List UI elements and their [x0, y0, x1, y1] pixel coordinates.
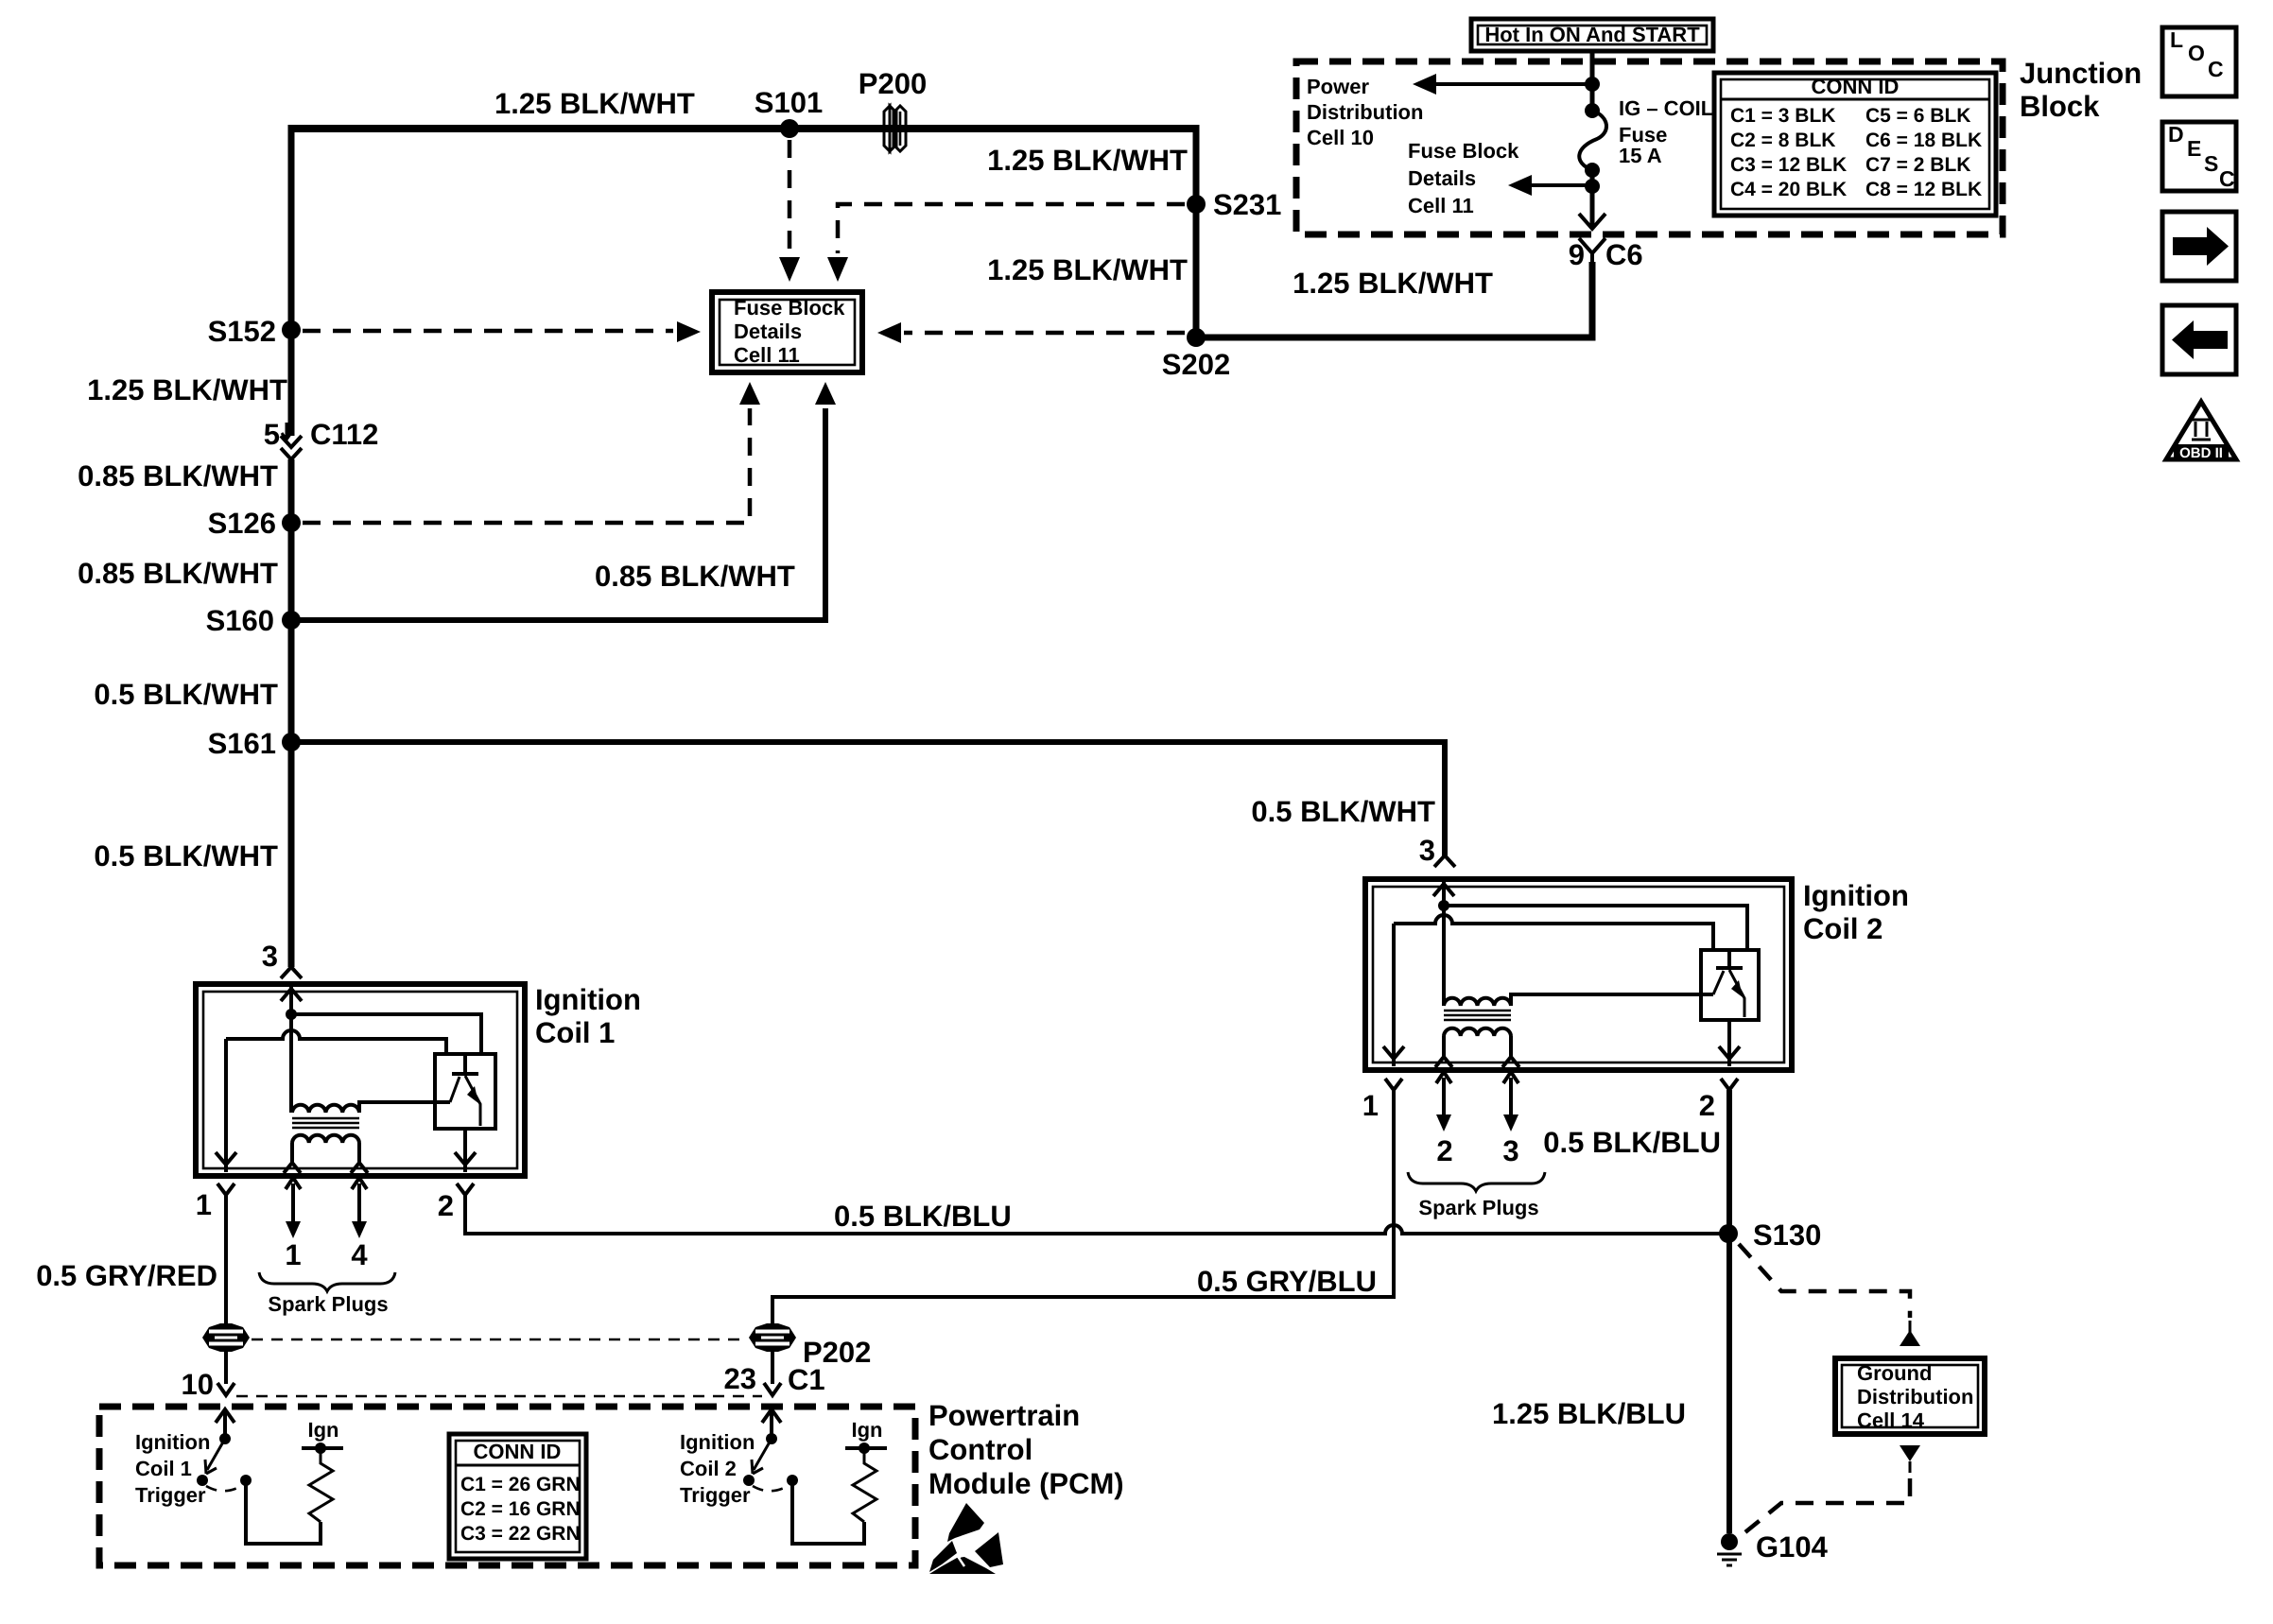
PCM dashed border [99, 1407, 915, 1565]
coil 2 pin 2 connector chevron [1721, 1079, 1738, 1090]
dashed wire S152 to fuse block details [303, 329, 673, 334]
svg-text:0.5 BLK/WHT: 0.5 BLK/WHT [94, 678, 278, 711]
resistor Ign (coil 1) [302, 1418, 343, 1522]
svg-text:Cell 14: Cell 14 [1857, 1408, 1925, 1432]
coil 2 secondary terminal chevrons [1435, 1057, 1519, 1067]
wire switch to resistor (coil 2 trigger) [792, 1480, 864, 1544]
svg-text:Trigger: Trigger [135, 1483, 206, 1507]
splice S161 [282, 733, 301, 752]
coil 1 transformer secondary winding [292, 1135, 359, 1143]
svg-text:0.85 BLK/WHT: 0.85 BLK/WHT [78, 459, 278, 492]
svg-text:Cell 11: Cell 11 [734, 343, 800, 367]
svg-text:C6 = 18 BLK: C6 = 18 BLK [1865, 130, 1982, 151]
svg-text:S160: S160 [206, 604, 274, 637]
svg-text:Ignition: Ignition [535, 983, 641, 1016]
coil 2 pin 1 internal wire with down arrow [1383, 924, 1404, 1066]
svg-text:0.5 BLK/WHT: 0.5 BLK/WHT [1251, 795, 1435, 828]
svg-text:S: S [2204, 151, 2218, 176]
coil 1 spark plug lead 4 (arrow both ends) [352, 1178, 367, 1224]
coil 2 secondary terminal leads [1444, 1036, 1511, 1057]
svg-text:C1 = 26 GRN: C1 = 26 GRN [460, 1474, 581, 1495]
svg-text:0.5 GRY/RED: 0.5 GRY/RED [36, 1259, 217, 1292]
svg-text:G104: G104 [1756, 1530, 1829, 1564]
svg-text:Coil 1: Coil 1 [135, 1457, 192, 1480]
coil 2 spark plug lead 3 (arrow both ends) [1503, 1072, 1518, 1117]
splice S202 [1187, 328, 1206, 347]
svg-text:Ignition: Ignition [680, 1430, 755, 1454]
coil 1 pin 2 internal wire with down arrow [455, 1129, 476, 1172]
ignition coil 1 box [196, 984, 525, 1176]
coil 2 pin 3 internal wire with up arrow [1433, 882, 1454, 906]
dashed wire ground distribution to G104 [1742, 1478, 1910, 1535]
connector P202 pass-through (right) [749, 1323, 871, 1369]
svg-text:CONN ID: CONN ID [474, 1440, 562, 1463]
coil 2 wire pin1 branch with hop over primary lead [1394, 915, 1713, 950]
coil 1 transformer primary winding [292, 1102, 450, 1113]
transistor Q1 symbol [452, 1054, 478, 1074]
svg-text:0.85 BLK/WHT: 0.85 BLK/WHT [595, 560, 795, 593]
svg-text:Ground: Ground [1857, 1361, 1932, 1385]
wire arrow to Power Distribution [1433, 82, 1592, 86]
svg-text:Distribution: Distribution [1857, 1385, 1973, 1408]
junction block dashed border [1296, 61, 2003, 234]
svg-text:Details: Details [1408, 166, 1476, 190]
title box Hot In ON And START [1471, 19, 1713, 51]
wire 0.5 GRY/RED coil1 pin1 down to P202 [224, 1195, 228, 1384]
svg-text:10: 10 [182, 1368, 214, 1401]
splice S101 [780, 119, 799, 138]
svg-text:Coil 1: Coil 1 [535, 1016, 615, 1049]
coil 1 secondary terminal chevrons [284, 1163, 368, 1173]
coil 1 wire dot to transistor collector [291, 1014, 481, 1054]
svg-text:C3 = 22 GRN: C3 = 22 GRN [460, 1523, 581, 1545]
wire switch to resistor (coil 1 trigger) [246, 1480, 321, 1544]
svg-text:C8 = 12 BLK: C8 = 12 BLK [1865, 179, 1982, 200]
wire 1.25 BLK/BLU coil2 pin2 to ground [1726, 1090, 1732, 1533]
svg-text:Spark Plugs: Spark Plugs [268, 1292, 388, 1316]
svg-text:Module (PCM): Module (PCM) [928, 1467, 1124, 1500]
wire 1.25 BLK/WHT top feed [291, 125, 1196, 132]
dashed wire from S231 to fuse block details [838, 204, 1185, 253]
connector C112 pin 5 [264, 418, 379, 459]
wire ignition feed inside junction block [1590, 51, 1595, 227]
arrowhead down into fuse block details (from S231 branch) [827, 257, 848, 282]
svg-text:0.5 BLK/BLU: 0.5 BLK/BLU [834, 1200, 1012, 1233]
arrowhead up to ground distribution box [1909, 1321, 1912, 1333]
svg-text:5: 5 [264, 418, 280, 451]
coil 1 spark plug lead 1 (arrow both ends) [286, 1178, 301, 1224]
transistor Q2 symbol [1716, 950, 1743, 968]
dashed wire from S101 to fuse block details [788, 140, 792, 253]
svg-text:1: 1 [1362, 1089, 1379, 1122]
svg-text:0.5 GRY/BLU: 0.5 GRY/BLU [1197, 1265, 1377, 1298]
svg-text:Cell 11: Cell 11 [1408, 194, 1474, 217]
svg-text:S126: S126 [208, 507, 276, 540]
svg-text:S130: S130 [1753, 1218, 1821, 1252]
svg-text:S152: S152 [208, 315, 276, 348]
coil 2 pin 3 connector Y [1434, 855, 1455, 867]
svg-text:Details: Details [734, 320, 802, 343]
icon right arrow box [2162, 212, 2236, 281]
svg-text:C2 = 8 BLK: C2 = 8 BLK [1730, 130, 1835, 151]
brace spark plugs (coil 1) [259, 1272, 395, 1291]
arrowhead down at junction block exit [1579, 214, 1605, 229]
arrowhead up into fuse block details (dashed) [739, 382, 760, 405]
svg-text:15 A: 15 A [1619, 144, 1662, 167]
svg-text:3: 3 [262, 940, 278, 973]
coil 1 pin 3 connector Y [281, 967, 302, 978]
coil 2 transformer core [1444, 1011, 1511, 1020]
coil 1 wire primary lead (dot to winding) [289, 1014, 293, 1113]
arrowhead down from ground distribution box [1900, 1445, 1920, 1461]
arrowhead left into fuse block details box [877, 322, 901, 343]
wire 0.5 BLK/WHT S161 to coil 2 [291, 742, 1445, 855]
ground G104 [1717, 1530, 1829, 1565]
icon OBD II triangle [2166, 402, 2236, 461]
coil 1 pin 3 internal wire with up arrow [281, 987, 302, 1014]
svg-text:1.25 BLK/WHT: 1.25 BLK/WHT [495, 87, 695, 120]
ignition coil 2 box [1365, 879, 1792, 1070]
svg-text:Hot In ON And START: Hot In ON And START [1484, 23, 1700, 46]
svg-text:Trigger: Trigger [680, 1483, 751, 1507]
ignition coil 1 trigger: switch [197, 1433, 252, 1491]
svg-text:C112: C112 [310, 418, 378, 451]
svg-text:L: L [2170, 27, 2183, 52]
svg-text:Spark Plugs: Spark Plugs [1418, 1196, 1538, 1219]
svg-text:1: 1 [196, 1188, 212, 1221]
svg-text:Control: Control [928, 1433, 1032, 1466]
coil 1 pin 1 connector chevron [217, 1183, 234, 1195]
svg-text:1: 1 [285, 1238, 301, 1271]
svg-text:E: E [2187, 136, 2201, 161]
svg-text:9: 9 [1569, 238, 1585, 271]
svg-text:Distribution: Distribution [1307, 100, 1423, 124]
splice S160 [282, 611, 301, 630]
svg-text:3: 3 [1502, 1134, 1518, 1167]
wire 0.5 BLK/BLU coil1 pin2 to S130 [465, 1195, 1728, 1234]
svg-text:Ign: Ign [852, 1418, 883, 1442]
dashed connector line P202 [252, 1339, 747, 1341]
conn id table (junction block) [1714, 73, 1996, 216]
connector P202 pass-through (left) [202, 1323, 250, 1352]
coil 1 wire pin1 branch with hop over primary lead [226, 1030, 446, 1054]
coil 1 internal node dot [286, 1009, 297, 1020]
svg-text:C3 = 12 BLK: C3 = 12 BLK [1730, 154, 1847, 176]
arrowhead right into fuse block details box [677, 321, 701, 342]
wire 1.25 BLK/WHT right vertical to S231/S202 [1193, 125, 1200, 337]
connector C6 pin 9 [1569, 238, 1643, 271]
coil 1 pin 2 connector chevron [457, 1183, 474, 1195]
resistor Ign (coil 2) [845, 1418, 887, 1522]
thin dashed connector line C1 inside PCM top [236, 1395, 762, 1398]
svg-text:1.25 BLK/WHT: 1.25 BLK/WHT [1293, 267, 1493, 300]
fuse IG-COIL 15A [1579, 96, 1713, 178]
svg-text:2: 2 [438, 1189, 454, 1222]
svg-text:C2 = 16 GRN: C2 = 16 GRN [460, 1498, 581, 1520]
ignition coil 1 trigger: input arrow [216, 1409, 234, 1439]
svg-text:Power: Power [1307, 75, 1369, 98]
svg-text:D: D [2168, 122, 2184, 147]
svg-text:Block: Block [2020, 90, 2100, 123]
splice S231 [1187, 195, 1206, 214]
svg-text:0.5 BLK/WHT: 0.5 BLK/WHT [94, 839, 278, 872]
svg-text:OBD II: OBD II [2179, 445, 2223, 461]
coil 2 spark plug lead 2 (arrow both ends) [1436, 1072, 1451, 1117]
ESD symbol [929, 1503, 1003, 1574]
svg-text:Powertrain: Powertrain [928, 1399, 1080, 1432]
svg-text:Fuse Block: Fuse Block [1408, 139, 1519, 163]
svg-text:C: C [2208, 57, 2224, 81]
node branch dot (fuse block details tap) [1585, 179, 1600, 194]
coil 1 transformer core [292, 1118, 359, 1128]
svg-text:C5 = 6 BLK: C5 = 6 BLK [1865, 105, 1970, 127]
arrowhead down into fuse block details (from S101) [779, 257, 800, 282]
svg-text:S231: S231 [1213, 188, 1281, 221]
brace spark plugs (coil 2) [1408, 1172, 1545, 1191]
coil 1 secondary terminal leads [292, 1143, 359, 1163]
svg-text:2: 2 [1436, 1134, 1452, 1167]
svg-text:C7 = 2 BLK: C7 = 2 BLK [1865, 154, 1970, 176]
coil 2 internal node dot [1438, 900, 1449, 911]
svg-text:Cell 10: Cell 10 [1307, 126, 1374, 149]
splice S126 [282, 513, 301, 532]
svg-text:3: 3 [1419, 834, 1435, 867]
coil 1 pin 1 internal wire with down arrow [216, 1039, 236, 1172]
fuse block details box [712, 292, 862, 372]
svg-text:P200: P200 [859, 67, 927, 100]
coil 2 pin 2 internal wire with down arrow [1719, 1020, 1740, 1066]
coil 2 wire dot to transistor collector [1444, 906, 1747, 950]
svg-text:Ignition: Ignition [1803, 879, 1909, 912]
dashed wire S130 to ground distribution [1739, 1244, 1910, 1318]
svg-text:S161: S161 [208, 727, 276, 760]
svg-text:CONN ID: CONN ID [1812, 75, 1900, 98]
coil 2 transformer secondary winding [1444, 1028, 1511, 1036]
icon DESC box [2162, 122, 2236, 191]
coil 2 wire primary lead (dot to winding) [1442, 906, 1446, 1006]
icon LOC box [2162, 27, 2236, 96]
wire left vertical feed (1.25/0.85 BLK/WHT) [288, 125, 295, 436]
coil 2 transformer primary winding [1444, 994, 1713, 1006]
ground distribution box [1835, 1358, 1985, 1434]
ignition coil 2 trigger: switch [743, 1433, 798, 1491]
svg-text:C: C [2219, 166, 2235, 191]
svg-text:4: 4 [351, 1238, 368, 1271]
svg-text:Fuse Block: Fuse Block [734, 296, 845, 320]
dashed wire S126 up into fuse block details [303, 408, 750, 523]
splice S130 [1719, 1224, 1738, 1243]
svg-text:0.85 BLK/WHT: 0.85 BLK/WHT [78, 557, 278, 590]
icon left arrow box [2162, 305, 2236, 374]
wire 0.85 BLK/WHT from S160 up into fuse block details [297, 408, 825, 620]
dashed wire S202 to fuse block details [904, 331, 1185, 336]
transistor Q1 box [435, 1054, 495, 1129]
arrowhead up into fuse block details (solid) [815, 382, 836, 405]
svg-text:O: O [2188, 41, 2205, 65]
conn id table (PCM) [449, 1434, 586, 1559]
wire 1.25 BLK/WHT from C6 to S202 [1201, 262, 1592, 337]
svg-text:C4 = 20 BLK: C4 = 20 BLK [1730, 179, 1847, 200]
connector P200 [859, 67, 927, 151]
svg-text:1.25 BLK/WHT: 1.25 BLK/WHT [987, 253, 1188, 286]
svg-text:Coil 2: Coil 2 [680, 1457, 737, 1480]
node branch dot (power distribution tap) [1585, 77, 1600, 92]
svg-text:1.25 BLK/BLU: 1.25 BLK/BLU [1492, 1397, 1686, 1430]
svg-text:C6: C6 [1605, 238, 1643, 271]
svg-text:23: 23 [724, 1362, 756, 1395]
svg-text:S202: S202 [1162, 348, 1230, 381]
svg-text:Coil 2: Coil 2 [1803, 912, 1883, 945]
svg-text:2: 2 [1699, 1089, 1715, 1122]
splice S152 [282, 320, 301, 339]
coil 2 pin 1 connector chevron [1385, 1079, 1402, 1090]
svg-text:Ignition: Ignition [135, 1430, 210, 1454]
ignition coil 2 trigger: input arrow [762, 1409, 781, 1439]
wire 0.5 GRY/BLU coil2 pin1 to P202 [772, 1090, 1394, 1384]
svg-text:Junction: Junction [2020, 57, 2142, 90]
svg-text:C1: C1 [788, 1363, 825, 1396]
wire arrow to Fuse Block Details [1529, 183, 1592, 187]
svg-text:S101: S101 [755, 86, 823, 119]
svg-text:C1 = 3 BLK: C1 = 3 BLK [1730, 105, 1835, 127]
svg-text:1.25 BLK/WHT: 1.25 BLK/WHT [987, 144, 1188, 177]
svg-text:1.25 BLK/WHT: 1.25 BLK/WHT [87, 373, 287, 406]
svg-text:Ign: Ign [308, 1418, 339, 1442]
svg-text:0.5 BLK/BLU: 0.5 BLK/BLU [1543, 1126, 1721, 1159]
transistor Q2 box [1701, 950, 1759, 1020]
svg-text:IG – COIL: IG – COIL [1619, 96, 1713, 120]
